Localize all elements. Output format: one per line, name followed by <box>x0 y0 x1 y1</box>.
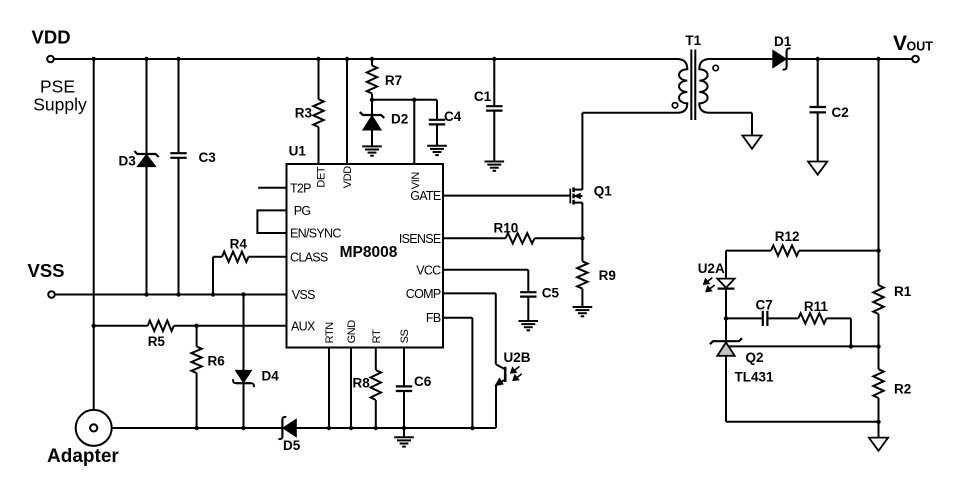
wire R4 drop to VSS <box>212 257 214 295</box>
svg-text:C5: C5 <box>542 286 560 301</box>
wire D1 to VOUT <box>788 58 913 60</box>
wire VIN column <box>413 100 415 164</box>
wire R7 upper <box>371 59 373 66</box>
junction bottom rail at SS <box>402 426 406 430</box>
zener D3 <box>134 151 158 157</box>
diode U2A (optocoupler LED) <box>717 279 734 288</box>
wire secondary return <box>751 113 753 136</box>
svg-text:U2B: U2B <box>504 350 531 365</box>
svg-text:PG: PG <box>294 204 311 218</box>
wire C1 lower <box>493 111 495 162</box>
svg-text:PSE: PSE <box>40 77 75 97</box>
svg-text:R8: R8 <box>353 376 371 391</box>
junction on VDD rail at R7 <box>370 57 374 61</box>
wire R3 lower to DET pin <box>318 127 320 164</box>
wire Q1 source column <box>581 203 583 239</box>
svg-text:T1: T1 <box>685 33 701 48</box>
junction bottom rail at R6 <box>194 426 198 430</box>
wire C1 upper <box>493 59 495 106</box>
svg-text:SS: SS <box>399 329 411 343</box>
junction VIN node <box>412 98 416 102</box>
svg-text:C1: C1 <box>474 89 492 104</box>
svg-text:Adapter: Adapter <box>47 446 119 467</box>
svg-text:VDD: VDD <box>32 27 71 48</box>
junction VSS rail at D4 <box>241 292 245 296</box>
resistor R8 <box>371 370 381 400</box>
svg-text:C6: C6 <box>414 374 432 389</box>
wire ground stub below rail <box>403 428 405 437</box>
capacitor C6 <box>396 385 412 387</box>
wire Q2 reference line <box>729 345 879 347</box>
svg-text:R4: R4 <box>230 237 248 252</box>
junction AUX at R6 <box>194 324 198 328</box>
svg-text:Q2: Q2 <box>746 350 764 365</box>
wire D5 to RTN rail <box>296 427 496 429</box>
junction output rail at C2 <box>816 57 820 61</box>
svg-text:C3: C3 <box>199 150 217 165</box>
resistor R5 <box>148 321 174 331</box>
wire divider middle <box>878 314 880 369</box>
junction on VDD rail at VDD pin <box>345 57 349 61</box>
svg-text:VSS: VSS <box>292 288 315 302</box>
svg-text:RTN: RTN <box>324 322 336 344</box>
wire Q2 anode to ground line <box>726 421 879 423</box>
junction on VDD rail at C1 <box>492 57 496 61</box>
wire R6 lower <box>196 373 198 428</box>
transformer T1 secondary polarity dot <box>713 65 718 70</box>
junction adapter column / AUX line <box>92 324 96 328</box>
junction VSS rail at R4 <box>211 292 215 296</box>
capacitor C2 <box>810 106 826 108</box>
wire C4 upper <box>436 100 438 120</box>
junction divider / Q2 anode line <box>876 420 880 424</box>
ground below D2 <box>362 145 382 147</box>
resistor R12 <box>771 245 799 255</box>
wire D2 upper <box>371 100 373 115</box>
wire U2B emitter column <box>495 385 497 428</box>
svg-text:U1: U1 <box>289 144 307 159</box>
wire RTN column <box>328 348 330 429</box>
svg-text:MP8008: MP8008 <box>340 244 398 261</box>
wire C2 lower <box>817 113 819 162</box>
capacitor C1 <box>486 105 502 107</box>
op-amp U1 MP8008 body <box>287 164 444 348</box>
diode D5 (schottky) <box>281 420 283 436</box>
svg-text:D3: D3 <box>119 154 137 169</box>
wire R9 lower <box>581 289 583 307</box>
svg-text:R5: R5 <box>148 334 166 349</box>
wire FB <box>443 317 472 319</box>
svg-text:Supply: Supply <box>33 95 87 115</box>
svg-text:D2: D2 <box>391 111 408 126</box>
ground below C4 <box>427 145 447 147</box>
capacitor C3 <box>170 152 186 154</box>
wire COMP <box>443 292 496 294</box>
junction on VDD rail at C3 <box>176 57 180 61</box>
wire R12 right segment <box>799 250 879 252</box>
junction output rail at divider <box>876 57 880 61</box>
resistor R1 <box>873 285 883 314</box>
svg-text:VIN: VIN <box>410 172 422 190</box>
capacitor C5 <box>520 291 536 293</box>
wire Q2 anode column <box>725 356 727 422</box>
wire GATE <box>443 195 570 197</box>
svg-text:R6: R6 <box>208 353 226 368</box>
svg-text:D5: D5 <box>283 438 301 453</box>
node VSS terminal <box>48 291 55 298</box>
svg-text:RT: RT <box>371 329 383 343</box>
wire adapter to D5 <box>112 427 282 429</box>
wire R11 right lead <box>826 317 851 319</box>
wire adapter column <box>93 59 95 424</box>
wire R3 upper <box>318 59 320 99</box>
svg-text:DET: DET <box>316 166 328 187</box>
svg-text:TL431: TL431 <box>735 370 775 385</box>
resistor R6 <box>191 347 201 374</box>
svg-text:R1: R1 <box>894 284 912 299</box>
junction on VDD rail at R3 <box>316 57 320 61</box>
resistor R7 <box>367 66 377 94</box>
connector Adapter jack <box>76 410 112 446</box>
svg-text:VSS: VSS <box>28 260 65 281</box>
wire PG-EN/SYNC loop <box>257 210 286 233</box>
svg-text:T2P: T2P <box>290 181 311 195</box>
ground below C1 <box>485 161 505 163</box>
resistor R9 <box>577 261 587 288</box>
node VOUT terminal <box>912 56 919 63</box>
wire D2 lower <box>371 130 373 147</box>
diode D4 (schottky) <box>236 371 251 382</box>
junction C7 tap <box>724 316 728 320</box>
wire node line R7-C4 <box>372 99 437 101</box>
node VDD terminal <box>47 56 54 63</box>
svg-text:V: V <box>893 32 907 55</box>
junction bottom rail at D4 <box>241 426 245 430</box>
wire D3 column <box>146 59 148 295</box>
wire CLASS lead right <box>249 256 287 258</box>
svg-text:R11: R11 <box>804 299 829 314</box>
wire AUX right segment <box>174 325 287 327</box>
wire C3 upper <box>178 59 180 153</box>
wire C7 lead <box>726 317 762 319</box>
svg-text:R7: R7 <box>385 73 402 88</box>
junction VSS rail at D3 <box>144 292 148 296</box>
wire C4 lower <box>436 125 438 146</box>
junction bottom rail at FB column <box>470 426 474 430</box>
wire VCC <box>443 269 528 271</box>
svg-text:FB: FB <box>426 311 441 325</box>
svg-text:OUT: OUT <box>907 40 934 54</box>
wire T2P stub <box>258 187 286 189</box>
wire SS lower <box>403 391 405 428</box>
svg-text:COMP: COMP <box>406 287 441 301</box>
wire R9 upper <box>581 238 583 261</box>
junction bottom rail at RTN <box>327 426 331 430</box>
transformer T1 primary winding <box>582 59 687 113</box>
junction on VDD rail at D3 <box>144 57 148 61</box>
wire VOUT divider column upper <box>878 59 880 285</box>
transformer T1 primary polarity dot <box>672 103 677 108</box>
svg-text:EN/SYNC: EN/SYNC <box>290 227 341 241</box>
svg-text:VDD: VDD <box>342 166 354 188</box>
svg-text:VCC: VCC <box>416 263 441 277</box>
wire divider lower <box>878 398 880 437</box>
wire R7 lower <box>371 94 373 100</box>
transformer T1 core <box>690 50 692 121</box>
ground below R2 <box>869 438 888 451</box>
transistor Q1 (NMOS) <box>569 189 571 204</box>
zener D2 <box>360 112 384 118</box>
wire secondary to D1 <box>710 58 774 60</box>
wire R12 left segment <box>726 250 771 252</box>
svg-text:C4: C4 <box>444 109 462 124</box>
svg-text:D1: D1 <box>774 34 792 49</box>
wire AUX left segment <box>94 325 148 327</box>
svg-text:GATE: GATE <box>410 189 441 203</box>
junction divider midpoint <box>876 344 880 348</box>
wire C7-R11 lead <box>768 317 798 319</box>
ground below bottom rail <box>394 436 414 438</box>
wire GND column <box>350 348 352 429</box>
wire CLASS lead left <box>213 256 222 258</box>
wire D4 lower <box>243 383 245 428</box>
ground below R9 <box>573 306 593 308</box>
svg-text:Q1: Q1 <box>594 184 613 199</box>
resistor R10 <box>506 233 535 243</box>
transformer T1 secondary winding <box>699 59 752 113</box>
resistor R4 <box>222 252 249 262</box>
transistor Q2 (TL431 shunt regulator) <box>710 338 742 344</box>
wire U2A cathode to Q2 <box>725 289 727 340</box>
wire RT upper <box>375 348 377 371</box>
svg-text:ISENSE: ISENSE <box>399 232 441 246</box>
junction bottom rail at GND <box>349 426 353 430</box>
svg-text:R9: R9 <box>599 268 616 283</box>
junction bottom rail at RT <box>374 426 378 430</box>
transistor U2B (optocoupler phototransistor) <box>504 367 507 382</box>
svg-text:R10: R10 <box>494 221 519 236</box>
svg-text:C7: C7 <box>756 298 773 313</box>
wire C3 lower <box>178 158 180 295</box>
ground below C5 <box>519 320 539 322</box>
svg-text:R2: R2 <box>894 382 911 397</box>
svg-text:R3: R3 <box>295 105 313 120</box>
resistor R11 <box>798 313 826 323</box>
ground below C2 <box>808 162 827 175</box>
svg-text:AUX: AUX <box>291 319 316 333</box>
wire Q1 drain to transformer <box>581 113 583 190</box>
wire ISENSE right <box>535 237 583 239</box>
resistor R3 <box>313 99 323 127</box>
wire C2 upper <box>817 59 819 107</box>
wire U2A anode <box>725 251 727 279</box>
junction R12/divider <box>876 248 880 252</box>
wire RT lower <box>375 400 377 428</box>
svg-text:C2: C2 <box>832 105 849 120</box>
diode D1 (schottky) <box>773 51 785 67</box>
wire VDD pin column <box>346 59 348 164</box>
svg-text:CLASS: CLASS <box>290 250 328 264</box>
junction on VDD rail at adapter column <box>92 57 96 61</box>
junction R7/D2 node <box>370 98 374 102</box>
svg-text:U2A: U2A <box>698 261 725 276</box>
wire D4 upper <box>243 295 245 371</box>
junction reference / R11 <box>849 344 853 348</box>
wire ISENSE left <box>443 237 506 239</box>
ground below T1 secondary <box>742 136 761 149</box>
svg-text:R12: R12 <box>775 229 800 244</box>
wire R6 upper <box>196 326 198 347</box>
junction ISENSE / Q1 source <box>580 236 584 240</box>
svg-text:GND: GND <box>346 320 358 344</box>
wire SS upper <box>403 348 405 387</box>
capacitor C7 <box>762 311 764 326</box>
wire C5 lower <box>527 297 529 321</box>
resistor R2 <box>873 369 883 398</box>
svg-text:D4: D4 <box>262 369 280 384</box>
junction VSS rail at C3 <box>176 292 180 296</box>
capacitor C4 <box>429 119 445 121</box>
